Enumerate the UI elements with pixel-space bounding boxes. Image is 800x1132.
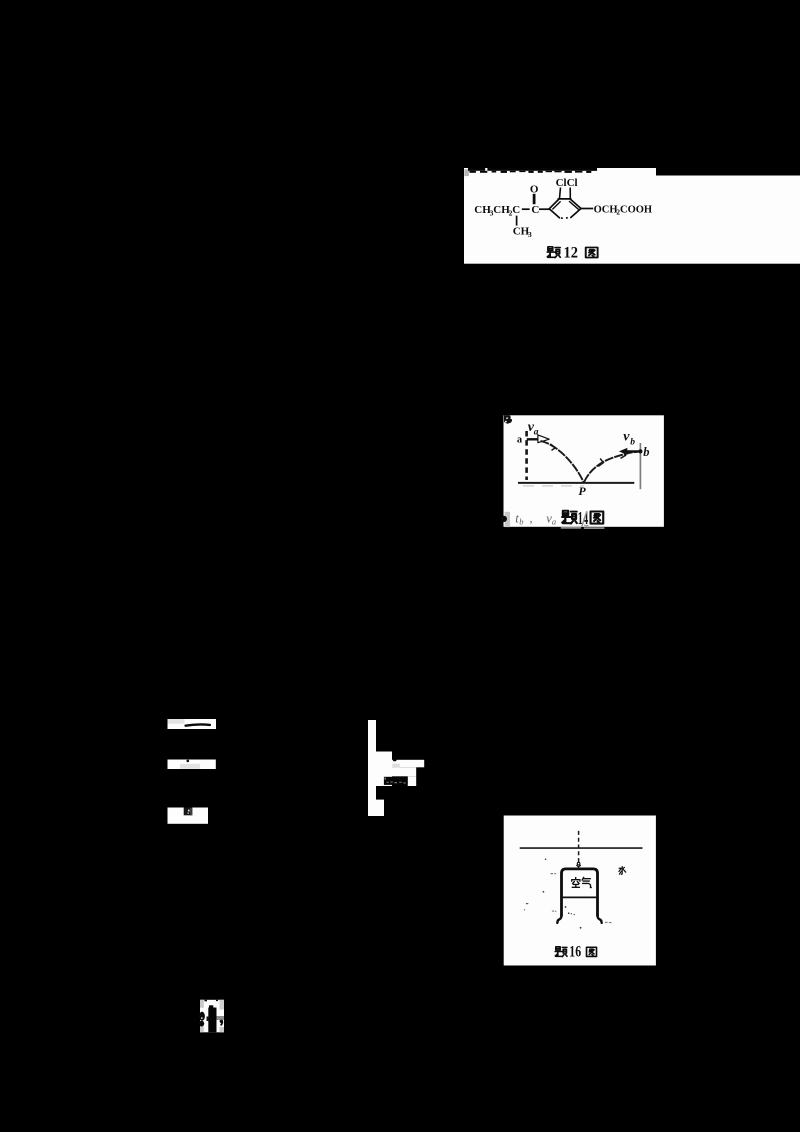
bond C-C [522, 208, 530, 210]
torn black strip at top of box 12 [468, 168, 597, 173]
svg-text:COOH: COOH [620, 205, 652, 216]
C=O double bond [533, 194, 536, 204]
figure box for question 12: white scan window [464, 168, 800, 264]
svg-text:P: P [578, 484, 586, 498]
CH3 branch label [513, 226, 532, 239]
label va [528, 420, 539, 438]
left fragment strip A [168, 719, 217, 729]
benzene ring [549, 199, 581, 218]
bottom text remnant patch [199, 1000, 224, 1033]
svg-text:O: O [530, 184, 539, 196]
right torn fragment: vertical bar [368, 720, 424, 816]
ClCl labels [556, 177, 578, 189]
chevron on left trajectory [551, 444, 556, 450]
svg-text:,: , [530, 511, 533, 525]
trajectory P to b [584, 452, 637, 482]
svg-text:16: 16 [569, 944, 581, 961]
chevrons on right trajectory [598, 451, 625, 466]
dashed vertical line at a [525, 431, 528, 480]
vertical bond to CH3 [516, 216, 518, 226]
inverted vessel outline [557, 869, 601, 923]
gray underline segments [561, 527, 605, 529]
caption 题12图 [547, 247, 597, 258]
label P [578, 484, 586, 498]
vertical gray line at b [639, 443, 641, 489]
va arrow (hollow head) [527, 435, 549, 443]
water surface line [520, 847, 643, 849]
light gray patch on fragment [392, 764, 400, 768]
vb arrow [619, 448, 643, 455]
ground line [518, 482, 634, 484]
small knot at top of vessel [576, 862, 580, 867]
ring dotted bottom edge [561, 217, 568, 219]
label b [643, 445, 649, 459]
svg-text:12: 12 [564, 244, 579, 261]
black window with faint glyph remnants [384, 777, 408, 785]
svg-text:C: C [512, 204, 520, 216]
faded text tb , va [515, 511, 556, 526]
left fragment strip C [168, 808, 209, 824]
left fragment strip B [168, 760, 216, 770]
svg-text:ClCl: ClCl [556, 177, 578, 189]
trajectory a to P [541, 441, 584, 482]
label vb [623, 430, 635, 448]
figure box for question 14: white scan window [504, 415, 664, 527]
black notch dot on fragment [393, 757, 397, 761]
gray smudge under ground [523, 485, 584, 487]
svg-text:b: b [630, 438, 635, 448]
svg-text:C: C [531, 204, 539, 216]
svg-text:v: v [623, 430, 630, 445]
svg-text:a: a [552, 517, 556, 527]
svg-text:3: 3 [528, 230, 532, 239]
formula text CH3CH2C [474, 204, 520, 217]
label 空气 (air) [572, 877, 592, 887]
scan specks in box 16 [524, 858, 612, 928]
carbonyl O label [530, 184, 539, 196]
label a [517, 435, 523, 446]
svg-text:b: b [643, 445, 649, 459]
label 水 (water) [619, 866, 626, 874]
OCH2COOH label [594, 205, 652, 217]
black dot on gray tab [501, 516, 507, 522]
gray tab at lower-left of box 14 [505, 512, 510, 527]
dashed hanging line [578, 831, 580, 864]
bond ring to O [581, 208, 593, 210]
caption 题16图 [555, 947, 596, 957]
caption 题14图 [562, 511, 603, 524]
water level inside vessel [563, 896, 597, 898]
svg-text:a: a [517, 435, 523, 446]
bond C to ring [539, 208, 550, 210]
figure box for question 16: white scan window [504, 816, 656, 966]
svg-text:b: b [519, 517, 523, 527]
svg-text:OCH: OCH [594, 205, 618, 216]
gray corner smudge top-left of box 12 [464, 169, 469, 176]
black blob in top-left corner of box 14 [504, 415, 512, 424]
carbonyl carbon C [531, 204, 539, 216]
Cl substituent bonds [560, 188, 571, 199]
gray slash artifact over 14 [582, 511, 588, 526]
